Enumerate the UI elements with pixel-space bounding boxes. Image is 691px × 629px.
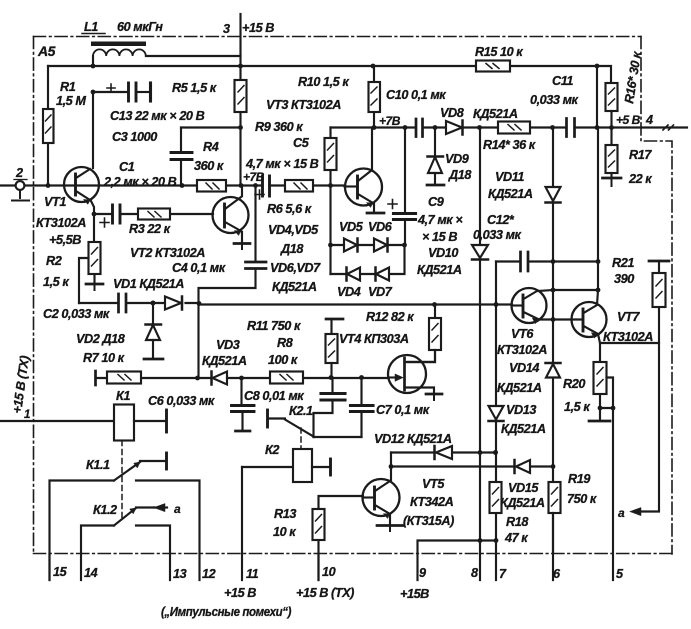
svg-text:390: 390 <box>614 272 634 286</box>
svg-text:VT2 КТ3102А: VT2 КТ3102А <box>130 246 205 260</box>
ground R20 <box>589 420 610 423</box>
svg-text:4,7 мк ×: 4,7 мк × <box>417 213 463 227</box>
wire VD15 line y=466.5 <box>391 465 553 467</box>
svg-text:КД521А: КД521А <box>500 496 545 510</box>
wire K1.2 contact to pin13 <box>136 526 170 581</box>
terminal bar K1.1 contact <box>165 453 168 469</box>
wire line y=304.5 right part <box>199 303 512 305</box>
svg-text:К1.2: К1.2 <box>93 503 117 517</box>
svg-text:C2 0,033 мк: C2 0,033 мк <box>43 307 110 321</box>
resistor R14 <box>498 122 530 134</box>
terminal bar K2.1 contact <box>266 410 269 427</box>
svg-text:VD5: VD5 <box>339 220 364 234</box>
svg-text:+15 В (ТХ): +15 В (ТХ) <box>10 355 32 415</box>
svg-text:КТ3102А: КТ3102А <box>497 343 547 357</box>
svg-text:R20: R20 <box>563 377 585 391</box>
diode VD6 <box>374 239 387 252</box>
diode VD14 <box>546 362 561 365</box>
capacitor C4 <box>254 186 256 262</box>
resistor R17 <box>606 145 618 173</box>
svg-text:а: а <box>174 502 181 516</box>
wire VD12 line y=452.5 <box>391 451 496 453</box>
svg-text:КД521А: КД521А <box>501 422 546 436</box>
svg-text:(КТ315А): (КТ315А) <box>403 514 454 528</box>
resistor R20 <box>599 343 601 408</box>
capacitor C5 <box>263 176 270 196</box>
svg-text:КД521А: КД521А <box>272 280 317 294</box>
wire pin6 lower <box>552 513 554 580</box>
capacitor C1 <box>113 205 121 223</box>
frame A5 dash-dot border <box>34 37 673 555</box>
svg-text:VD6,VD7: VD6,VD7 <box>270 261 321 275</box>
terminal bar R21 top <box>649 260 669 263</box>
svg-text:VT4 КП303А: VT4 КП303А <box>339 332 409 346</box>
svg-text:КД521А: КД521А <box>497 381 542 395</box>
diode VD12 <box>436 446 452 459</box>
terminal bar R7 left <box>94 371 97 385</box>
wire R2 tap to C2 <box>79 258 88 303</box>
resistor R5 <box>239 66 241 186</box>
svg-text:КД521А: КД521А <box>473 107 518 121</box>
svg-text:C6 0,033 мк: C6 0,033 мк <box>148 394 215 408</box>
wire link y=290 <box>553 289 598 291</box>
svg-text:4: 4 <box>645 113 653 127</box>
svg-text:VT7: VT7 <box>617 310 640 324</box>
wire pin4 end tick <box>663 125 674 130</box>
wire C2/VD1 line y=303 <box>79 302 199 304</box>
ground R17 <box>603 177 622 180</box>
svg-text:VT5: VT5 <box>422 477 445 491</box>
svg-text:C10 0,1 мк: C10 0,1 мк <box>386 88 446 102</box>
diode VD13 <box>489 406 504 420</box>
capacitor C8 <box>240 378 242 404</box>
svg-text:0,033 мк: 0,033 мк <box>473 228 522 242</box>
terminal bar K2 contact <box>329 459 332 475</box>
svg-text:R6 5,6 к: R6 5,6 к <box>267 202 312 216</box>
svg-text:R12 82 к: R12 82 к <box>366 310 414 324</box>
resistor R7 <box>107 372 141 384</box>
diode VD10 <box>472 245 488 258</box>
svg-text:750 к: 750 к <box>567 492 597 506</box>
svg-text:R4: R4 <box>203 140 219 154</box>
transistor VT5 <box>363 479 400 516</box>
capacitor C7 <box>360 378 362 405</box>
svg-text:1,5 к: 1,5 к <box>564 400 590 414</box>
diode VD2 <box>151 301 156 306</box>
svg-text:КД521А: КД521А <box>202 354 247 368</box>
svg-text:R8: R8 <box>277 336 294 350</box>
resistor R16 <box>606 83 618 111</box>
node junction dots bus <box>91 64 96 69</box>
svg-text:R17: R17 <box>629 148 652 162</box>
resistor R15 <box>476 61 510 72</box>
svg-text:C11: C11 <box>552 74 573 88</box>
capacitor C10 <box>416 119 423 137</box>
svg-text:Д18: Д18 <box>448 168 472 182</box>
diode VD7 <box>376 268 389 281</box>
svg-text:C13 22 мк × 20 В: C13 22 мк × 20 В <box>110 109 205 123</box>
diode VD9 <box>434 128 436 157</box>
svg-text:(„Импульсные помехи“): („Импульсные помехи“) <box>161 604 291 619</box>
resistor R1 <box>47 66 49 186</box>
wire C1 line y=214 <box>94 213 213 215</box>
svg-text:+7В: +7В <box>243 170 265 184</box>
svg-text:R1: R1 <box>60 80 76 94</box>
svg-text:К1: К1 <box>116 389 130 403</box>
svg-text:2: 2 <box>15 166 23 180</box>
svg-text:VD6: VD6 <box>368 220 393 234</box>
svg-text:C1: C1 <box>119 160 135 174</box>
svg-text:47 к: 47 к <box>504 531 528 545</box>
node pin 2 terminal <box>16 181 25 190</box>
svg-text:R18: R18 <box>506 515 529 529</box>
svg-text:4,7 мк × 15 В: 4,7 мк × 15 В <box>245 157 319 171</box>
svg-text:3: 3 <box>223 22 230 36</box>
resistor R18 <box>490 482 502 513</box>
svg-text:R9 360 к: R9 360 к <box>255 120 303 134</box>
svg-text:+7В: +7В <box>379 114 401 128</box>
capacitor C9 <box>404 128 406 213</box>
svg-text:1,5 к: 1,5 к <box>43 275 69 289</box>
switch K1.2 <box>136 506 154 508</box>
svg-text:+5 В: +5 В <box>616 113 641 127</box>
svg-text:C7 0,1 мк: C7 0,1 мк <box>376 403 430 417</box>
svg-text:C8 0,01 мк: C8 0,01 мк <box>244 389 304 403</box>
resistor R13 <box>319 496 364 580</box>
svg-text:11: 11 <box>246 567 259 581</box>
resistor R6 <box>285 180 313 192</box>
diode VD15 <box>516 460 530 473</box>
svg-text:5: 5 <box>616 567 624 581</box>
svg-text:+15В: +15В <box>400 587 429 601</box>
diode VD11 <box>552 128 554 188</box>
svg-text:× 15 В: × 15 В <box>422 230 457 244</box>
capacitor unnamed (K2.1 branch) <box>331 378 333 393</box>
svg-text:КТ342А: КТ342А <box>410 495 454 509</box>
svg-text:1,5 М: 1,5 М <box>56 94 86 108</box>
ground VT5 emitter <box>377 524 403 527</box>
svg-text:Д18: Д18 <box>280 242 304 256</box>
svg-text:10: 10 <box>322 565 336 579</box>
svg-text:R10 1,5 к: R10 1,5 к <box>298 75 349 89</box>
svg-text:VD4: VD4 <box>337 285 361 299</box>
capacitor C11 <box>567 119 575 137</box>
wire K2.1 linkage dashed <box>300 428 302 449</box>
ground VD2 <box>144 358 163 361</box>
svg-text:A5: A5 <box>37 43 56 59</box>
svg-text:R21: R21 <box>612 256 634 270</box>
resistor R2 <box>93 214 96 283</box>
svg-text:C5: C5 <box>293 136 310 150</box>
capacitor C13 <box>93 91 127 93</box>
diode row VD4 VD7 y=274 <box>331 245 405 274</box>
diode VD4 <box>347 268 360 281</box>
svg-text:VD7: VD7 <box>368 285 393 299</box>
wire K1.2 left to pin14 <box>81 526 114 581</box>
svg-text:VD2 Д18: VD2 Д18 <box>76 332 126 346</box>
diode VD3 <box>213 372 228 385</box>
svg-text:13: 13 <box>173 567 187 581</box>
svg-text:8: 8 <box>471 566 479 580</box>
capacitor C3 <box>180 128 182 151</box>
svg-text:R13: R13 <box>274 507 296 521</box>
wire pin5 vertical <box>612 408 614 580</box>
svg-text:12: 12 <box>202 567 216 581</box>
svg-text:а: а <box>618 506 625 520</box>
wire right vertical x=598 <box>597 66 598 290</box>
svg-text:VD3: VD3 <box>216 338 240 352</box>
svg-text:R2: R2 <box>46 254 62 268</box>
resistor R10 <box>373 66 375 128</box>
svg-text:VT1: VT1 <box>44 195 66 209</box>
wire pin15 <box>48 554 50 581</box>
resistor R8 <box>270 372 303 384</box>
svg-text:VD8: VD8 <box>440 106 465 120</box>
wire pin11 <box>241 467 243 580</box>
svg-text:C12*: C12* <box>487 213 515 227</box>
wire C3 to R5 link <box>181 126 241 128</box>
resistor R3 <box>138 209 170 220</box>
svg-text:R11 750 к: R11 750 к <box>247 319 301 333</box>
terminal bar R11 top <box>326 318 343 321</box>
svg-text:R3 22 к: R3 22 к <box>129 222 171 236</box>
ground VT2 emitter <box>234 242 250 245</box>
svg-text:VT3 КТ3102А: VT3 КТ3102А <box>266 98 341 112</box>
wire relay linkage K1 dashed <box>121 441 123 520</box>
wire pin3 stub <box>239 14 241 66</box>
svg-text:VD9: VD9 <box>445 152 469 166</box>
ground C8 <box>236 430 251 433</box>
svg-text:+15 В (ТХ): +15 В (ТХ) <box>296 586 354 600</box>
wire pin9 line y=540.5 <box>418 541 497 581</box>
svg-text:15: 15 <box>53 565 68 579</box>
svg-text:1: 1 <box>24 409 30 421</box>
svg-text:100 к: 100 к <box>268 353 298 367</box>
diode VD1 <box>165 297 181 310</box>
svg-text:КТ3102А: КТ3102А <box>36 216 86 230</box>
inductor L1 <box>91 42 241 67</box>
svg-text:R5 1,5 к: R5 1,5 к <box>172 81 217 95</box>
svg-text:VD4,VD5: VD4,VD5 <box>268 223 319 237</box>
resistor R9 <box>329 128 331 275</box>
svg-text:R14* 36 к: R14* 36 к <box>483 138 536 152</box>
svg-text:VD13: VD13 <box>506 403 536 417</box>
svg-text:+5,5В: +5,5В <box>49 233 81 247</box>
resistor R12 <box>408 305 435 363</box>
wire pin8 vertical <box>479 128 481 581</box>
relay K2 <box>242 466 293 468</box>
svg-text:14: 14 <box>84 566 98 580</box>
capacitor C2 <box>119 294 127 312</box>
ground VD9 <box>427 184 444 187</box>
transistor VT7 <box>572 302 607 337</box>
wire K1.1 left to pin15 <box>50 481 115 581</box>
wire VD8/C11 line y=127.5 <box>331 126 688 128</box>
svg-text:R19: R19 <box>568 472 590 486</box>
svg-text:КТ3102А: КТ3102А <box>603 330 653 344</box>
ground VT4 source <box>426 393 442 396</box>
svg-text:10 к: 10 к <box>273 525 296 539</box>
wire pin10 <box>317 554 319 581</box>
resistor R4 <box>197 180 226 192</box>
resistor R19 <box>549 482 561 513</box>
svg-text:VD12 КД521А: VD12 КД521А <box>374 432 452 446</box>
svg-text:7: 7 <box>499 567 507 581</box>
wire C12 line y=261.5 <box>496 260 598 262</box>
svg-text:+15 В: +15 В <box>242 21 274 35</box>
svg-text:60 мкГн: 60 мкГн <box>117 20 163 34</box>
diode VD5 <box>344 239 357 252</box>
svg-text:VD15: VD15 <box>508 481 539 495</box>
svg-text:VD14: VD14 <box>509 361 539 375</box>
wire main line y=185.5 <box>0 184 345 186</box>
svg-text:22 к: 22 к <box>628 172 652 186</box>
terminal bar K1 contact <box>165 410 168 432</box>
svg-text:КД521А: КД521А <box>417 263 462 277</box>
svg-text:VD1 КД521А: VD1 КД521А <box>113 277 184 291</box>
capacitor C12 <box>521 252 529 271</box>
svg-text:9: 9 <box>419 566 426 580</box>
wire VT7 emitter bus to a <box>600 343 659 512</box>
svg-text:К2.1: К2.1 <box>289 404 313 418</box>
svg-text:C4 0,1 мк: C4 0,1 мк <box>172 261 226 275</box>
wire power bus +15V y=66 <box>48 66 611 83</box>
svg-text:2,2 мк × 20 В: 2,2 мк × 20 В <box>103 175 177 189</box>
diode row VD5 VD6 y=245 <box>331 244 405 246</box>
terminal bar C13 free end <box>149 83 152 101</box>
svg-text:R15 10 к: R15 10 к <box>475 45 523 59</box>
diode VD8 <box>446 121 462 134</box>
svg-text:R7 10 к: R7 10 к <box>83 351 125 365</box>
svg-text:VD10: VD10 <box>428 246 458 260</box>
transistor VT4 FET <box>388 355 426 393</box>
svg-text:VD11: VD11 <box>495 170 524 184</box>
wire K1.1 right to pin12 <box>136 481 200 581</box>
svg-text:L1: L1 <box>84 20 98 34</box>
wire pin7 vertical <box>495 262 497 581</box>
svg-text:К2: К2 <box>265 443 279 457</box>
transistor VT2 <box>213 197 249 233</box>
ground VT3 emitter <box>367 212 384 215</box>
transistor VT3 <box>345 169 382 206</box>
transistor VT1 <box>64 167 99 202</box>
switch K1.1 <box>140 460 166 462</box>
svg-text:6: 6 <box>553 567 561 581</box>
svg-text:0,033 мк: 0,033 мк <box>530 93 579 107</box>
transistor VT6 <box>512 288 547 323</box>
svg-text:К1.1: К1.1 <box>86 458 110 472</box>
svg-text:C9: C9 <box>428 195 444 209</box>
ground R2 <box>86 283 103 286</box>
svg-text:VT6: VT6 <box>511 327 534 341</box>
svg-text:КД521А: КД521А <box>488 187 533 201</box>
svg-text:C3 1000: C3 1000 <box>112 130 157 144</box>
svg-text:360 к: 360 к <box>194 159 224 173</box>
relay K1 <box>0 420 114 422</box>
svg-text:+15 В: +15 В <box>224 586 256 600</box>
